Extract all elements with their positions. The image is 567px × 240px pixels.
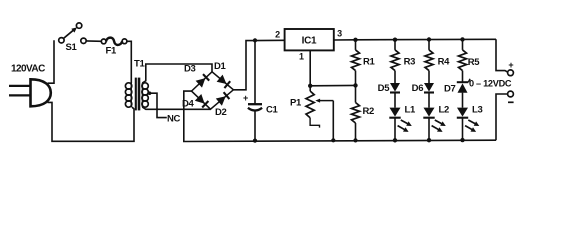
label D4 xyxy=(182,99,195,110)
capacitor C1 xyxy=(243,40,279,140)
label D7 xyxy=(444,83,456,94)
plus terminal xyxy=(508,60,514,76)
resistor R5 xyxy=(459,39,481,70)
svg-text:R1: R1 xyxy=(363,56,376,67)
AC plug xyxy=(9,79,51,106)
LED L3 xyxy=(457,108,480,141)
label D2 xyxy=(215,107,227,118)
svg-text:R3: R3 xyxy=(404,56,416,67)
LED L2 xyxy=(423,108,446,141)
center tap NC xyxy=(148,91,181,124)
svg-text:F1: F1 xyxy=(106,46,118,57)
wire bridge positive to top rail xyxy=(233,40,284,90)
wire secondary bottom to bridge bottom vertex xyxy=(142,107,210,109)
wire pin1 junction to R1 R2 junction xyxy=(310,84,355,86)
resistor R3 xyxy=(391,40,415,71)
transformer T1 primary winding xyxy=(125,83,131,107)
wire pin1 down xyxy=(309,50,311,91)
svg-text:2: 2 xyxy=(275,30,280,40)
svg-text:0 – 12VDC: 0 – 12VDC xyxy=(469,79,512,89)
label D5 xyxy=(378,83,391,94)
diode D3 xyxy=(196,74,210,88)
wire F1 to T1 primary xyxy=(127,41,132,83)
node R5 top xyxy=(460,37,464,41)
diode D6 xyxy=(424,71,434,108)
diode D1 xyxy=(217,75,231,89)
label D1 xyxy=(214,61,227,72)
IC1 regulator xyxy=(285,29,334,50)
svg-text:+: + xyxy=(508,60,513,70)
svg-text:P1: P1 xyxy=(290,97,302,108)
top rail xyxy=(356,38,497,41)
node L2 bottom xyxy=(427,138,431,142)
svg-text:IC1: IC1 xyxy=(302,36,317,47)
switch S1 xyxy=(59,23,82,53)
svg-text:L1: L1 xyxy=(405,104,417,115)
svg-text:D1: D1 xyxy=(214,61,227,72)
svg-text:D6: D6 xyxy=(412,83,424,94)
pin 2 label xyxy=(275,30,280,40)
P1 bottom lead open xyxy=(310,118,319,128)
svg-text:L3: L3 xyxy=(472,104,483,115)
svg-text:R2: R2 xyxy=(363,106,375,117)
svg-text:S1: S1 xyxy=(66,42,78,53)
svg-text:R5: R5 xyxy=(468,57,481,68)
svg-text:T1: T1 xyxy=(134,59,146,70)
resistor R2 xyxy=(352,85,375,140)
wire plug bottom down-left rail xyxy=(48,102,135,141)
label D6 xyxy=(412,83,424,94)
wire plug top to switch xyxy=(48,40,55,83)
transformer T1 secondary winding xyxy=(142,83,148,107)
label L1 xyxy=(405,104,417,115)
diode D2 xyxy=(216,92,230,106)
node R4 top xyxy=(427,37,431,41)
svg-text:D2: D2 xyxy=(215,107,227,118)
svg-text:L2: L2 xyxy=(439,104,450,115)
fuse F1 xyxy=(101,38,127,57)
wire S1 to F1 xyxy=(86,40,102,42)
label output voltage xyxy=(469,79,512,89)
svg-text:3: 3 xyxy=(337,28,342,38)
node C1 top xyxy=(253,38,257,42)
bridge diamond outline xyxy=(192,72,234,109)
minus terminal xyxy=(508,91,514,102)
label L3 xyxy=(472,104,483,115)
svg-text:D7: D7 xyxy=(444,83,456,94)
label 120VAC xyxy=(11,64,45,75)
svg-text:C1: C1 xyxy=(266,105,279,116)
svg-text:120VAC: 120VAC xyxy=(11,64,45,75)
node L1 bottom xyxy=(393,138,397,142)
svg-text:R4: R4 xyxy=(438,56,451,67)
node L3 bottom xyxy=(460,138,464,142)
LED L1 xyxy=(389,108,412,141)
svg-text:D3: D3 xyxy=(184,64,196,75)
node C1 bottom xyxy=(253,139,257,143)
pin 3 label xyxy=(337,28,342,38)
wire wiper to bottom rail xyxy=(332,101,334,141)
node R1 R2 junction xyxy=(353,83,357,87)
label L2 xyxy=(439,104,450,115)
wire top rail to plus terminal xyxy=(496,39,508,72)
svg-text:+: + xyxy=(243,93,248,103)
diode D7 xyxy=(457,71,470,108)
svg-text:NC: NC xyxy=(167,114,181,125)
diode D5 xyxy=(390,71,400,108)
node R3 top xyxy=(393,38,397,42)
label D3 xyxy=(184,64,196,75)
label T1 xyxy=(134,59,146,70)
svg-text:D5: D5 xyxy=(378,83,391,94)
wire pin3 to rail xyxy=(334,39,356,41)
node wiper bottom xyxy=(331,138,335,142)
potentiometer P1 xyxy=(290,91,333,118)
resistor R4 xyxy=(425,40,450,71)
svg-text:1: 1 xyxy=(299,52,304,62)
wire bridge negative to bottom rail xyxy=(184,91,496,141)
node pin1 junction xyxy=(308,84,312,88)
pin 1 label xyxy=(299,52,304,62)
resistor R1 xyxy=(352,40,376,86)
diode D4 xyxy=(195,94,209,108)
switch contact node xyxy=(81,38,86,43)
node R2 bottom xyxy=(353,138,357,142)
wire secondary top to bridge top vertex xyxy=(142,64,212,83)
wire minus terminal to bottom rail xyxy=(496,94,508,140)
node R1 top xyxy=(353,38,357,42)
transformer T1 core xyxy=(136,78,139,111)
